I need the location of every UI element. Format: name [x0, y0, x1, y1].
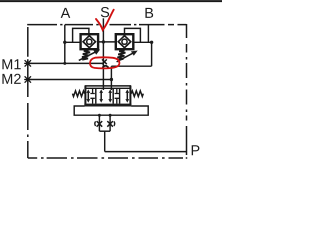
relief valve U2 spring [117, 50, 125, 60]
valve V1 flow arrow d [126, 92, 128, 101]
relief valve U1 body (left square) [81, 34, 99, 49]
valve V1 right edge [129, 86, 131, 105]
valve V1 right spring [131, 91, 143, 97]
pilot line left valve [73, 28, 89, 42]
orifice arc left [94, 121, 97, 126]
node U right top [109, 114, 112, 117]
valve V1 divider 1 [95, 88, 97, 103]
valve V1 closed port T pair 1 [90, 88, 94, 103]
plug X on U left [97, 121, 103, 127]
top rule [0, 0, 222, 2]
wire: port S vertical down to shuttle and valve [102, 18, 104, 90]
wire: P line [105, 151, 187, 153]
relief valve U1 adjust arrow [79, 52, 95, 60]
plug X at M2 port [24, 76, 31, 82]
node at S/outlet rail junction [102, 40, 105, 43]
pilot line right valve [125, 28, 141, 42]
shuttle seat arc [103, 66, 109, 68]
wire: tail to P [104, 131, 106, 151]
node U left top [98, 114, 101, 117]
wire: shuttle right vertical v2 [110, 66, 112, 90]
relief valve U1 spring [82, 50, 90, 60]
plug X at M1 port [24, 60, 31, 66]
valve V1 bottom bar [84, 104, 131, 107]
enclosure border bottom [28, 157, 183, 159]
relief valve U2 poppet diamond [118, 36, 130, 48]
relief valve U2 ball [122, 39, 127, 44]
node at A/inlet junction [63, 41, 66, 44]
wire: M1 gauge line [29, 62, 103, 64]
valve V1 left spring [73, 91, 85, 97]
plug X on S line [102, 59, 107, 64]
valve V1 top line 2 [85, 87, 132, 89]
valve V1 closed port T pair 2 [115, 88, 119, 103]
U drop left [98, 115, 100, 131]
valve V1 left edge [84, 86, 86, 105]
valve V1 divider 2 [112, 88, 114, 103]
relief valve U1 poppet diamond [83, 36, 95, 48]
red annotation ellipse around shuttle [90, 57, 119, 68]
wire: outlet rail between valves [98, 41, 116, 43]
enclosure border right [186, 24, 188, 159]
wire: right drain down [151, 42, 153, 66]
valve V1 divider 3 [119, 88, 121, 103]
relief valve U2 adjust arrow [117, 53, 133, 62]
valve V1 flow arrow b [100, 92, 102, 101]
wire: M2 gauge line [29, 79, 111, 81]
node at right drain corner [150, 41, 153, 44]
relief valve U1 ball [87, 39, 92, 44]
wire: right valve inlet line [133, 41, 151, 43]
U bottom [99, 130, 110, 132]
relief valve U2 body (right square) [116, 34, 134, 49]
U drop right [109, 115, 111, 131]
wire: right drain horizontal to shuttle [111, 65, 151, 67]
drain box below valve [74, 106, 148, 115]
red annotation check mark on S [96, 10, 114, 30]
node at A/M1 junction [63, 62, 66, 65]
enclosure border left [27, 27, 29, 158]
valve V1 flow arrow a [87, 92, 89, 101]
node at M2/v2 junction [110, 78, 113, 81]
valve V1 flow arrow c [109, 92, 111, 101]
orifice arc right [113, 121, 116, 126]
wire: port A vertical [64, 25, 66, 64]
wire: left valve inlet line [65, 41, 81, 43]
valve V1 top line 1 [85, 85, 132, 87]
plug X on U right [107, 121, 113, 127]
enclosure border top [27, 24, 186, 26]
wire: port B vertical [147, 25, 149, 43]
